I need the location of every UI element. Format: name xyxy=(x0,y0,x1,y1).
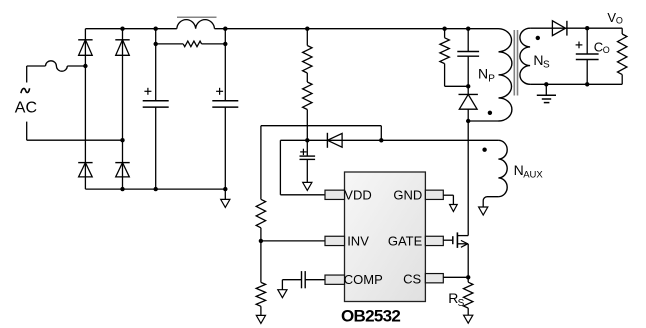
svg-text:CS: CS xyxy=(403,272,421,287)
svg-text:N: N xyxy=(533,52,543,68)
svg-text:S: S xyxy=(458,298,465,309)
svg-text:AC: AC xyxy=(15,100,37,117)
svg-text:O: O xyxy=(616,15,623,25)
svg-text:S: S xyxy=(543,59,550,70)
svg-text:N: N xyxy=(478,66,488,82)
svg-text:INV: INV xyxy=(347,234,369,249)
svg-text:GATE: GATE xyxy=(388,234,423,249)
svg-text:P: P xyxy=(488,74,495,85)
svg-text:COMP: COMP xyxy=(344,272,383,287)
svg-text:O: O xyxy=(603,45,610,55)
svg-text:VDD: VDD xyxy=(344,187,371,202)
svg-text:C: C xyxy=(594,40,603,55)
svg-text:GND: GND xyxy=(393,187,422,202)
svg-text:AUX: AUX xyxy=(523,169,543,180)
svg-text:OB2532: OB2532 xyxy=(341,307,400,326)
